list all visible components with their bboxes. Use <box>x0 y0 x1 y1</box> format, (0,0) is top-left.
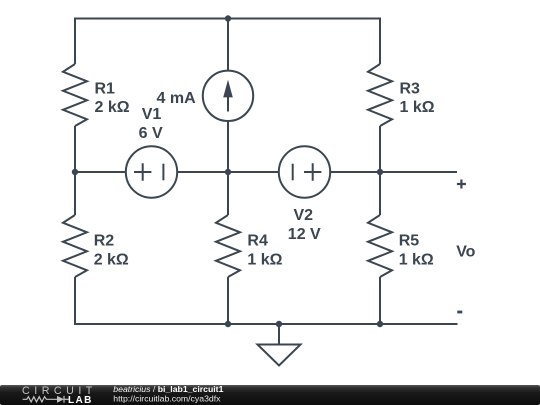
resistor R4 <box>216 215 240 277</box>
V2 plus sign <box>304 163 321 180</box>
ground lead <box>278 324 280 345</box>
minus terminal mark <box>457 311 462 314</box>
junction node C <box>377 169 383 175</box>
svg-text:1 kΩ: 1 kΩ <box>400 99 435 116</box>
svg-text:R2: R2 <box>94 233 115 250</box>
voltage source V1 body <box>126 146 177 197</box>
wire middle node A to V1 <box>75 171 126 173</box>
wire bottom center <box>228 323 279 325</box>
wire R2 bottom lead and bottom left corner <box>75 277 228 324</box>
svg-text:1 kΩ: 1 kΩ <box>399 252 434 269</box>
wire middle right stub <box>380 171 457 173</box>
current source I1 body <box>203 71 253 121</box>
wire R3 bottom lead <box>379 126 381 172</box>
junction dot top center <box>225 15 231 21</box>
wire CS bottom lead <box>227 121 229 172</box>
footer bar <box>0 385 540 405</box>
wire node B to V2 <box>228 171 279 173</box>
wire V1 to node B <box>177 171 228 173</box>
V2 minus bar <box>292 164 294 181</box>
wire V2 to node C <box>330 171 380 173</box>
svg-text:LAB: LAB <box>68 395 93 405</box>
logo resistor diode glyph <box>23 396 69 403</box>
svg-text:2 kΩ: 2 kΩ <box>95 99 130 116</box>
wire R1 bottom lead <box>74 126 76 172</box>
V1 plus sign <box>134 163 151 180</box>
junction bottom ground <box>276 321 282 327</box>
wire R4 top lead <box>227 172 229 215</box>
junction bottom R5 <box>377 321 383 327</box>
wire R5 top lead <box>379 172 381 215</box>
svg-text:V2: V2 <box>294 207 314 224</box>
junction node B <box>225 169 231 175</box>
voltage source V2 body <box>279 146 330 197</box>
svg-text:beatricius / bi_lab1_circuit1: beatricius / bi_lab1_circuit1 <box>113 384 223 394</box>
wire CS top lead <box>227 19 229 71</box>
plus terminal mark <box>457 180 466 189</box>
svg-text:2 kΩ: 2 kΩ <box>94 252 129 269</box>
wire top rail with R1 and R3 top leads <box>75 19 380 65</box>
CS arrow head <box>223 80 233 98</box>
V1 minus bar <box>162 164 164 181</box>
junction node A <box>72 169 78 175</box>
wire R4 bottom lead <box>227 277 229 324</box>
resistor R2 <box>63 215 87 277</box>
svg-text:V1: V1 <box>142 106 162 123</box>
svg-text:R3: R3 <box>400 80 421 97</box>
svg-text:R5: R5 <box>399 233 420 250</box>
junction bottom R4 <box>225 321 231 327</box>
svg-text:6 V: 6 V <box>139 125 163 142</box>
wire bottom right stub <box>380 323 458 325</box>
resistor R5 <box>368 215 392 277</box>
ground symbol <box>258 345 301 366</box>
svg-text:1 kΩ: 1 kΩ <box>247 252 282 269</box>
resistor R3 <box>368 64 392 126</box>
svg-text:Vo: Vo <box>456 243 475 260</box>
CS arrow shaft <box>227 84 229 112</box>
wire R5 bottom lead <box>379 277 381 324</box>
svg-text:12 V: 12 V <box>288 226 321 243</box>
resistor R1 <box>63 64 87 126</box>
svg-text:R1: R1 <box>95 80 116 97</box>
svg-text:http://circuitlab.com/cya3dfx: http://circuitlab.com/cya3dfx <box>113 393 221 403</box>
wire bottom center right <box>279 323 380 325</box>
svg-text:4 mA: 4 mA <box>157 90 197 107</box>
svg-text:R4: R4 <box>247 233 268 250</box>
wire R2 top lead <box>74 172 76 215</box>
